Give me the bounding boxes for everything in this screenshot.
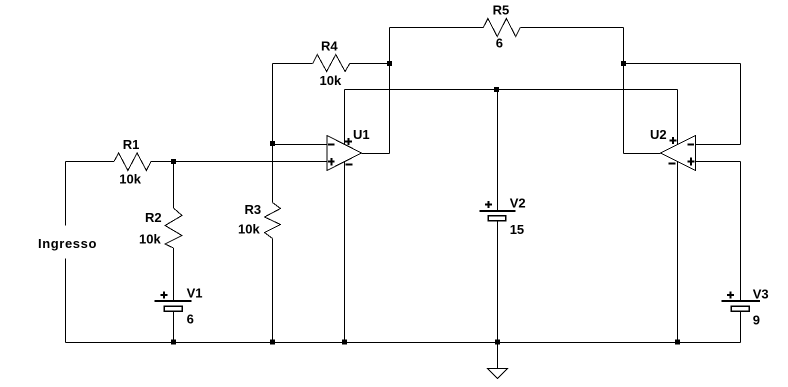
svg-text:R1: R1 (123, 137, 140, 152)
svg-text:15: 15 (510, 222, 524, 237)
svg-text:9: 9 (753, 312, 760, 327)
svg-text:V1: V1 (187, 285, 203, 300)
svg-text:U1: U1 (353, 127, 370, 142)
svg-text:U2: U2 (650, 127, 667, 142)
svg-text:10k: 10k (139, 232, 161, 247)
svg-text:6: 6 (187, 312, 194, 327)
svg-text:10k: 10k (119, 171, 141, 186)
svg-text:Ingresso: Ingresso (38, 236, 97, 251)
svg-text:V2: V2 (510, 196, 526, 211)
svg-text:R5: R5 (493, 3, 510, 18)
svg-text:V3: V3 (753, 286, 769, 301)
svg-text:R4: R4 (321, 38, 338, 53)
svg-text:6: 6 (496, 36, 503, 51)
svg-text:R2: R2 (145, 210, 162, 225)
svg-text:R3: R3 (245, 202, 262, 217)
svg-text:10k: 10k (238, 221, 260, 236)
svg-text:10k: 10k (320, 73, 342, 88)
